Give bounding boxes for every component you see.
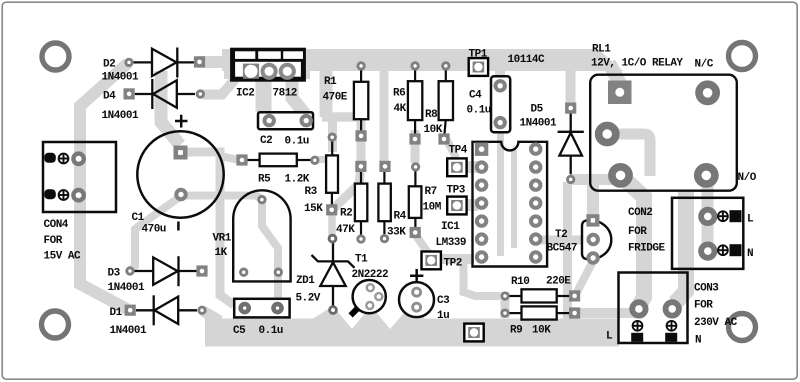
- test point TP3: [447, 197, 466, 215]
- svg-text:R6: R6: [393, 88, 405, 100]
- svg-text:2N2222: 2N2222: [352, 269, 389, 281]
- svg-text:230V AC: 230V AC: [694, 317, 738, 329]
- wire arch leg through R1 bottom pad to R2 top pad: [357, 113, 366, 163]
- wire C1 minus to VR1 top pad: [184, 196, 262, 200]
- wire R10 R9 left pads vertical: [501, 292, 510, 318]
- svg-text:TP1: TP1: [469, 49, 488, 61]
- svg-text:R4: R4: [394, 211, 407, 223]
- svg-text:D2: D2: [103, 59, 115, 71]
- wire stub to R5 left pad: [220, 156, 239, 160]
- capacitor C5: [234, 299, 289, 318]
- wire T2 top stub: [587, 183, 599, 218]
- wire R5 right pad stub: [316, 156, 330, 163]
- wire band to D5 top pad: [566, 62, 576, 103]
- svg-text:R10: R10: [511, 276, 529, 288]
- wire CON2 area to CON3 right pad: [675, 192, 686, 303]
- wire arch leg to R3 top pad: [328, 113, 337, 152]
- svg-text:D3: D3: [108, 268, 121, 280]
- wire IC2 to C2 right pad: [292, 78, 305, 114]
- regulator IC2 7812: [233, 50, 304, 79]
- resistor R7: [414, 171, 416, 187]
- svg-text:TP2: TP2: [444, 258, 462, 270]
- svg-text:LM339: LM339: [436, 237, 467, 249]
- capacitor C2: [258, 112, 313, 129]
- svg-text:N: N: [695, 335, 701, 347]
- svg-text:15V AC: 15V AC: [44, 251, 82, 263]
- resistor R6: [414, 70, 416, 82]
- svg-text:N/O: N/O: [738, 172, 757, 184]
- wire arch horizontal: [322, 112, 365, 122]
- svg-text:10M: 10M: [423, 202, 442, 214]
- svg-text:1u: 1u: [437, 310, 449, 322]
- svg-text:220E: 220E: [546, 276, 571, 288]
- wire TP4 stub: [466, 161, 478, 173]
- svg-text:12V, 1C/O RELAY: 12V, 1C/O RELAY: [591, 58, 683, 70]
- svg-text:0.1u: 0.1u: [285, 135, 309, 147]
- connector CON3: [619, 273, 688, 344]
- svg-text:C1: C1: [132, 212, 145, 224]
- wire IC1 pin down to R10 left pad: [464, 262, 501, 296]
- svg-text:0.1u: 0.1u: [259, 325, 283, 337]
- diode D5: [558, 114, 584, 175]
- svg-text:1N4001: 1N4001: [520, 118, 558, 130]
- wire R3 bottom to ZD1 top: [328, 212, 336, 236]
- wire band under IC2: [224, 65, 310, 79]
- svg-text:1.2K: 1.2K: [285, 174, 310, 186]
- svg-text:4K: 4K: [394, 103, 407, 115]
- svg-text:L: L: [606, 331, 613, 343]
- wire D5 bottom down to pour: [563, 182, 572, 320]
- IC socket IC1 LM339: [473, 142, 548, 267]
- svg-text:N: N: [747, 248, 753, 260]
- test point TP2: [422, 252, 441, 270]
- capacitor C1 electrolytic: [137, 131, 223, 217]
- svg-text:ZD1: ZD1: [296, 275, 315, 287]
- wire R6 bottom to R7 top: [411, 130, 420, 163]
- svg-text:470u: 470u: [142, 224, 166, 236]
- svg-text:T1: T1: [355, 254, 368, 266]
- svg-text:IC2: IC2: [236, 88, 254, 100]
- wire D1 pad into pour: [203, 311, 220, 321]
- svg-text:R1: R1: [324, 76, 337, 88]
- svg-text:33K: 33K: [387, 227, 406, 239]
- mounting hole top-right: [729, 43, 756, 70]
- resistor R8: [445, 70, 447, 82]
- wire C1 minus to D3: [131, 196, 181, 270]
- svg-text:FRIDGE: FRIDGE: [628, 243, 666, 255]
- wire D2 to CON4 to D1: [80, 63, 128, 309]
- svg-text:TP3: TP3: [447, 185, 466, 197]
- svg-text:15K: 15K: [304, 203, 323, 215]
- test point TP1: [469, 58, 488, 76]
- wire R3 bottom to R2 top diagonal: [333, 172, 361, 209]
- svg-text:R2: R2: [340, 208, 352, 220]
- svg-text:1K: 1K: [215, 247, 228, 259]
- ground pour bottom strip: [205, 306, 619, 347]
- svg-text:CON4: CON4: [44, 219, 69, 231]
- svg-text:VR1: VR1: [213, 233, 232, 245]
- svg-text:D4: D4: [103, 91, 116, 103]
- wire top copper band: [222, 49, 598, 71]
- svg-text:R9: R9: [510, 325, 522, 337]
- preset VR1: [233, 190, 290, 281]
- diode D2: [134, 48, 195, 78]
- svg-text:IC1: IC1: [441, 221, 460, 233]
- svg-text:470E: 470E: [323, 92, 348, 104]
- wire band to C4 top pad: [495, 62, 505, 80]
- svg-text:FOR: FOR: [628, 226, 647, 238]
- connector CON2: [672, 198, 743, 269]
- resistor R9: [509, 312, 522, 314]
- svg-text:C4: C4: [469, 90, 482, 102]
- svg-text:7812: 7812: [273, 88, 297, 100]
- wire R9 right to CON3 region: [577, 308, 640, 318]
- svg-text:1N4001: 1N4001: [102, 72, 140, 84]
- svg-text:R5: R5: [258, 174, 271, 186]
- svg-text:L: L: [747, 214, 754, 226]
- wire D5 bottom to relay pad: [570, 174, 620, 185]
- svg-text:D5: D5: [531, 104, 544, 116]
- svg-text:R8: R8: [425, 109, 438, 121]
- svg-text:1N4001: 1N4001: [110, 325, 148, 337]
- connector CON4: [43, 142, 116, 212]
- wire relay internal L: [610, 134, 650, 176]
- svg-text:T2: T2: [555, 229, 567, 241]
- svg-text:10K: 10K: [424, 124, 443, 136]
- relay RL1: [590, 75, 737, 191]
- transistor T2: [582, 220, 611, 259]
- svg-text:10114C: 10114C: [508, 54, 546, 66]
- wire relay to CON2 pads: [702, 176, 714, 252]
- test point TP0: [464, 324, 483, 342]
- svg-text:CON2: CON2: [628, 207, 652, 219]
- resistor R10: [509, 295, 522, 297]
- diode D4: [135, 79, 195, 109]
- test point TP4: [447, 158, 466, 176]
- mounting hole bottom-left: [42, 311, 69, 338]
- wire R10 right to T2 emitter: [577, 263, 592, 292]
- svg-text:0.1u: 0.1u: [467, 105, 491, 117]
- wire diode junction to C1 plus pad: [161, 71, 180, 145]
- resistor R1: [360, 70, 362, 82]
- svg-text:BC547: BC547: [547, 243, 578, 255]
- wire IC1 to T2 base: [540, 236, 585, 245]
- wire IC2 to C2 left pad: [256, 78, 272, 112]
- wire C3 bottom stub: [413, 304, 421, 322]
- wire relay top-left pad to band: [609, 63, 623, 89]
- resistor R2: [360, 171, 362, 184]
- svg-text:N/C: N/C: [695, 59, 714, 71]
- zener ZD1: [312, 243, 355, 306]
- wire VR1 internal to C5 right pad: [262, 202, 278, 304]
- transistor T1: [353, 280, 386, 313]
- svg-text:FOR: FOR: [44, 235, 63, 247]
- svg-text:C5: C5: [233, 325, 246, 337]
- svg-text:1N4001: 1N4001: [108, 282, 146, 294]
- wire R8 bottom to TP4: [446, 138, 456, 158]
- diode D1: [136, 295, 197, 325]
- svg-text:R7: R7: [425, 186, 437, 198]
- TRACES: [80, 49, 708, 322]
- svg-text:D1: D1: [110, 307, 123, 319]
- wire IC1 internal: [511, 150, 517, 248]
- svg-text:5.2V: 5.2V: [296, 293, 321, 305]
- wire TP3 stub: [466, 199, 478, 211]
- wire C4 bottom through IC1 socket: [497, 126, 504, 256]
- svg-text:C2: C2: [260, 135, 272, 147]
- svg-text:C3: C3: [437, 295, 450, 307]
- diode D3: [135, 256, 197, 286]
- svg-text:FOR: FOR: [694, 300, 713, 312]
- svg-text:1N4001: 1N4001: [102, 110, 140, 122]
- capacitor C3 electrolytic: [399, 282, 434, 317]
- mounting hole bottom-right: [729, 314, 756, 341]
- wire band down to arch: [320, 66, 333, 117]
- capacitor C4: [491, 76, 510, 132]
- resistor R5: [247, 159, 260, 161]
- resistor R3: [331, 140, 333, 156]
- wire relay pad to CON3 left pad: [621, 176, 644, 304]
- svg-text:TP4: TP4: [449, 145, 468, 157]
- svg-text:10K: 10K: [532, 325, 551, 337]
- wire D2 pad stub: [197, 56, 232, 68]
- resistor R4: [383, 171, 385, 184]
- wire R7 bottom to TP2: [416, 235, 430, 254]
- wire band to R4 top: [380, 66, 389, 162]
- svg-text:47K: 47K: [336, 224, 355, 236]
- mounting hole top-left: [42, 43, 69, 70]
- wire C1 plus pad right then down to C5: [186, 152, 234, 305]
- wire TP2 stub right: [440, 254, 474, 264]
- wire D4 pad stub to band: [202, 79, 235, 95]
- svg-text:CON3: CON3: [694, 283, 719, 295]
- svg-text:R3: R3: [305, 186, 318, 198]
- svg-text:RL1: RL1: [592, 44, 611, 56]
